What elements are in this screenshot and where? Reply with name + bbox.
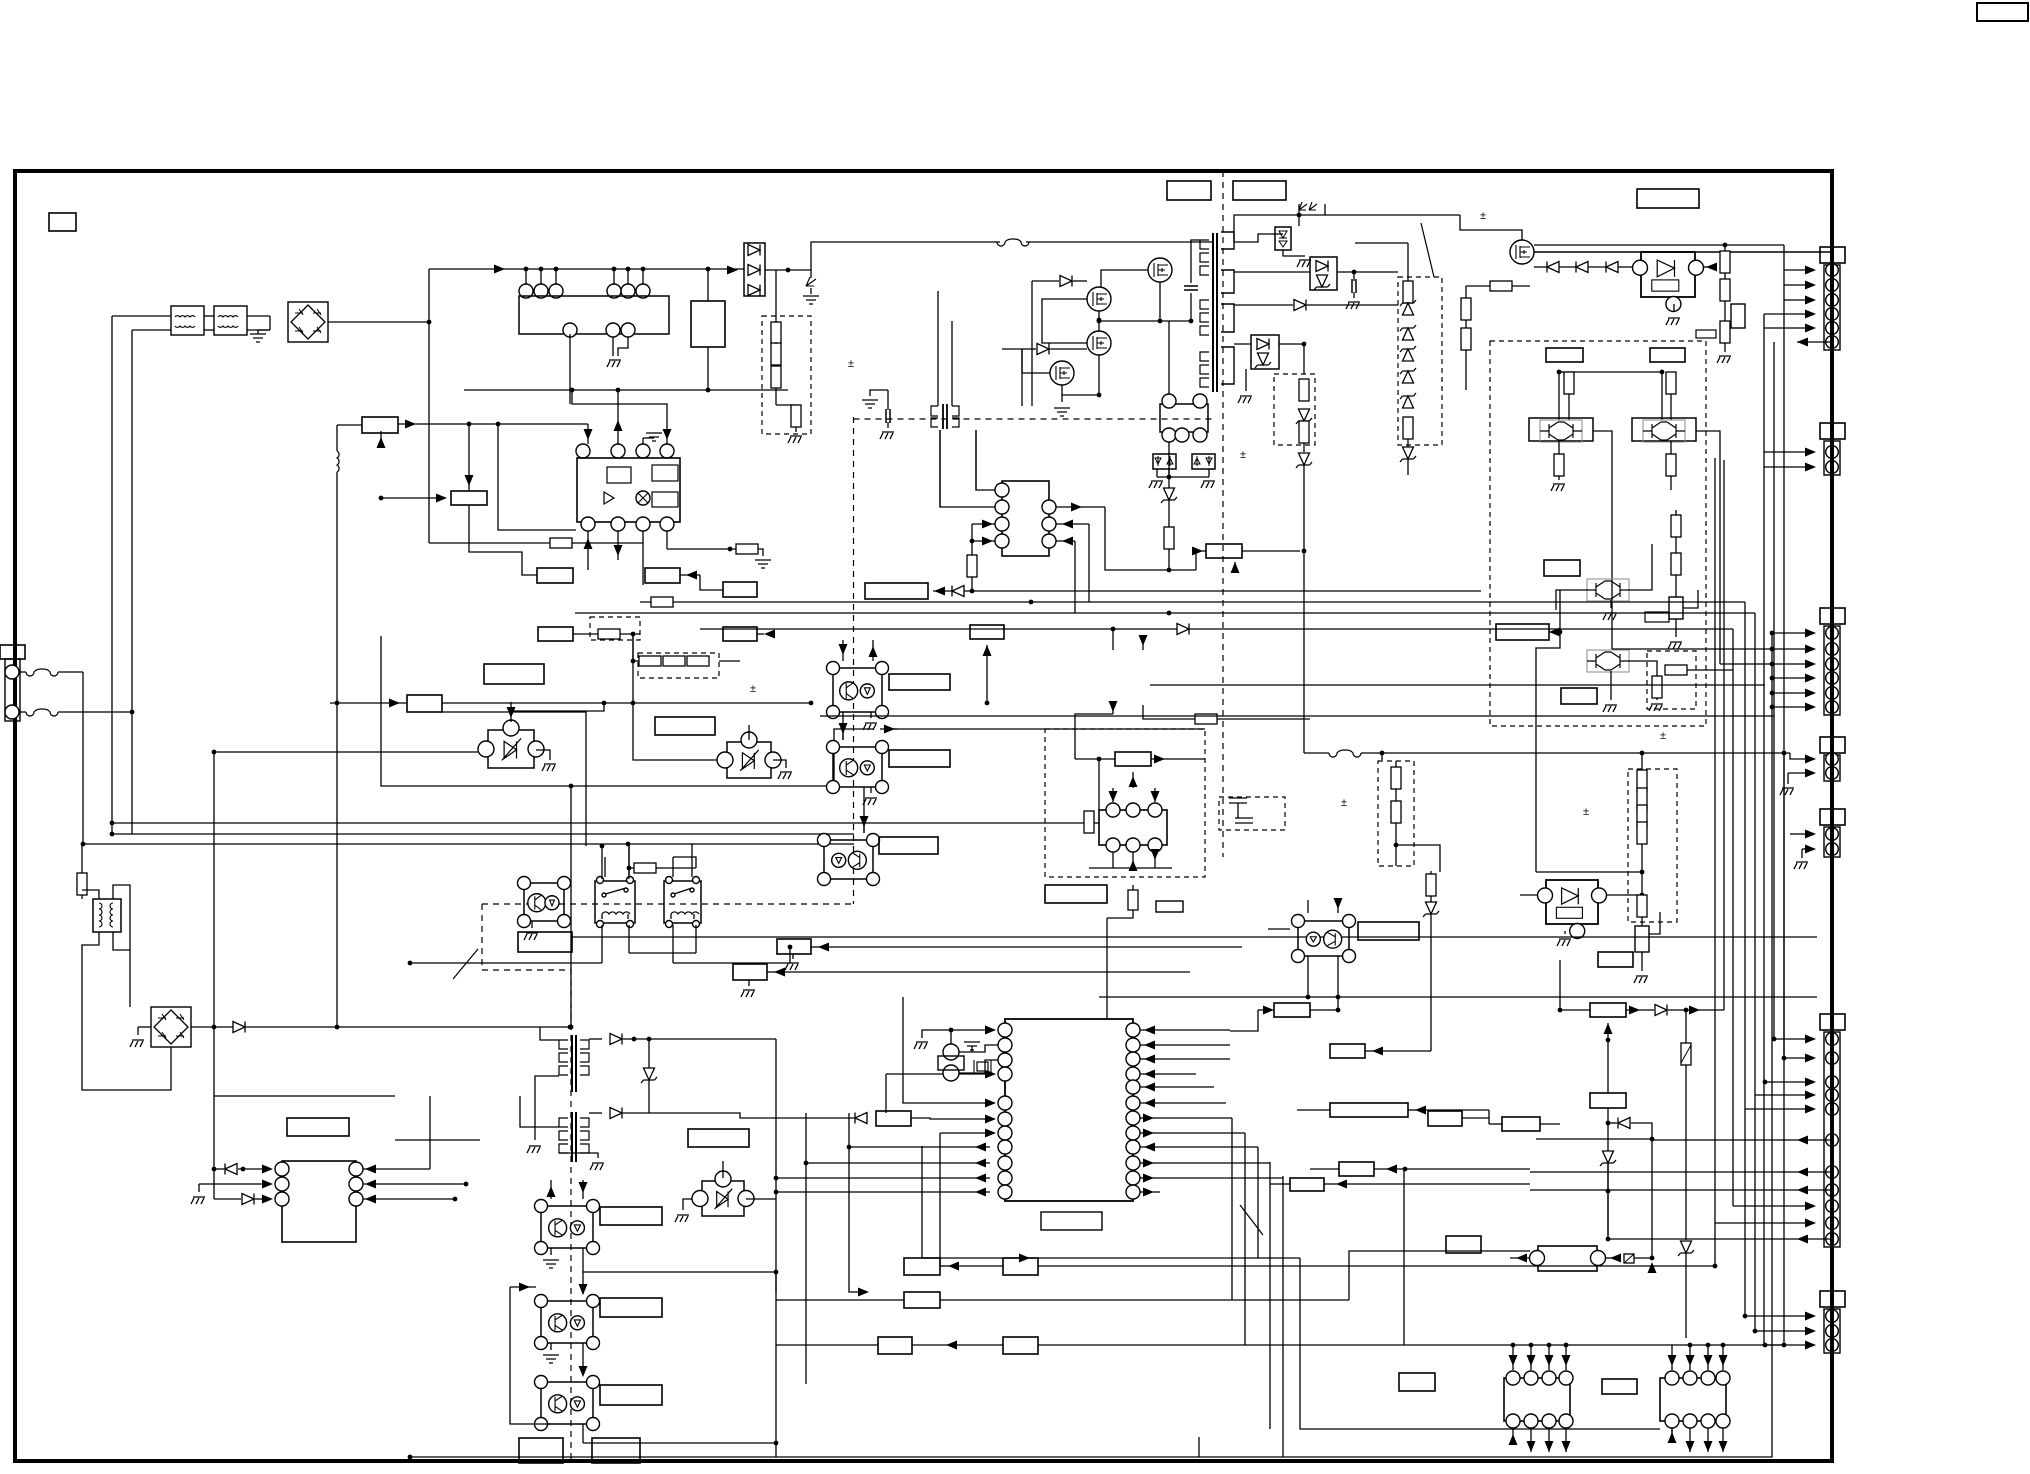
svg-text:±: ± — [1480, 210, 1486, 222]
wire x1686 — [1685, 1010, 1687, 1043]
wire into diode pack — [727, 266, 738, 275]
wire y726 lower dashes — [1535, 726, 1537, 872]
wire pot net — [1132, 885, 1134, 890]
resistor column x1466 — [1465, 286, 1467, 298]
wire relay tops2 — [601, 846, 603, 879]
block B10b label — [655, 717, 715, 735]
wire T4 sec top diode — [589, 1038, 602, 1040]
wire jog into CN4 pin1 — [1790, 753, 1805, 759]
diode D-sec2 — [1294, 300, 1306, 311]
block B12 — [645, 568, 680, 583]
ground BR2 — [137, 1027, 139, 1035]
arrow up into net — [1234, 562, 1236, 570]
IC1 inner block 1 — [607, 467, 631, 483]
wire fuse to transformer — [1026, 234, 1213, 242]
resistor M2 top — [1666, 372, 1676, 394]
wire PC5 top — [1307, 900, 1309, 913]
wire Q5 out — [1534, 251, 1831, 253]
resistor on O6 route — [1195, 714, 1217, 724]
wire B41 left — [1270, 1183, 1290, 1185]
cap to chassis — [887, 390, 889, 410]
wire y1457 bottom — [410, 1456, 1199, 1458]
wire B14 right — [573, 633, 640, 635]
PC8 wires — [579, 1366, 588, 1377]
U33 top pins — [1106, 803, 1120, 817]
PC2 arrow out — [880, 728, 897, 730]
drive winding brackets — [931, 406, 938, 427]
wire q2 gate link — [1032, 280, 1059, 282]
fuse F1 — [19, 671, 26, 673]
photo triac PT2 — [702, 1181, 744, 1216]
arrow up into B16 — [986, 645, 988, 703]
wire AC bus bottom — [83, 843, 854, 845]
U35 top arrows — [1512, 1345, 1514, 1370]
wire IC1 pin4 feed — [572, 390, 667, 444]
ground TL431 — [1673, 304, 1675, 312]
wire y752 vertical drop — [213, 752, 215, 1096]
label box B34 — [1358, 922, 1419, 940]
wire B54-B55 — [912, 1344, 1003, 1346]
wire M2 to CN3 — [1720, 663, 1772, 665]
label box B47 — [1602, 1379, 1637, 1394]
wire x806 column — [805, 1113, 807, 1384]
capacitor C-sec — [1352, 279, 1356, 293]
PC7 wires — [579, 1284, 588, 1295]
U30 left pin arrows — [985, 1026, 996, 1035]
wire degauss gnd — [612, 337, 614, 356]
wire module top bus — [1559, 371, 1662, 373]
MOSFET Q3 — [1087, 331, 1111, 355]
dashed boundary horizontal y419 — [854, 418, 1214, 420]
wire B57 right — [1606, 1257, 1620, 1259]
MOSFET Q1 — [1148, 258, 1172, 282]
crystal X1 — [943, 1044, 959, 1060]
wire B43p net — [1559, 590, 1561, 632]
block B10 label — [484, 664, 544, 684]
wire B8 right — [442, 702, 811, 704]
wire T5 loop — [82, 890, 99, 899]
wire vbus 1772 long — [1199, 633, 1772, 1457]
wire B7 bottom feed — [380, 431, 382, 445]
label box B45 — [1446, 1236, 1481, 1253]
wire bus A y937 left segment — [572, 936, 851, 938]
PT0 gnd — [536, 750, 550, 760]
diode pack D102 — [744, 243, 765, 296]
IC1 top pins — [576, 444, 590, 458]
ground RC — [1717, 356, 1731, 363]
wire q to transformer — [1159, 282, 1161, 321]
wire x633 drop to triac — [633, 634, 727, 760]
wire PT1 gnd — [773, 760, 786, 768]
right border bus thick — [1830, 171, 1834, 1461]
wire T5 to bridge — [129, 960, 131, 1007]
optocoupler PC6 — [541, 1206, 593, 1248]
wire y716 — [820, 715, 1774, 717]
optocoupler PC8 — [541, 1382, 593, 1424]
wire U33 bottom — [1112, 852, 1114, 868]
twin zener pack Z1 — [1153, 454, 1176, 469]
wire staircase 4 — [1269, 1162, 1271, 1429]
wire B43 arrow up — [1607, 1023, 1609, 1040]
gnd crystal — [922, 1030, 936, 1038]
wire aux winding feed — [1168, 321, 1170, 394]
resistor+zener col x1431 — [1426, 874, 1436, 896]
arrow B37 — [1365, 1050, 1378, 1052]
label box B19 — [889, 750, 950, 767]
block B31 — [1115, 752, 1151, 766]
wire B53 — [776, 1299, 904, 1301]
zener B44 — [1600, 1151, 1616, 1166]
wire B9 down — [469, 505, 537, 575]
wire main B+ vertical — [428, 269, 430, 543]
ground C-sec — [1346, 302, 1360, 309]
optocoupler PC2 — [833, 747, 882, 787]
U33 bottom pins — [1106, 838, 1120, 852]
wire D12 — [1641, 753, 1643, 770]
wire B33 out right — [1242, 550, 1300, 552]
wire y1345 bus — [1460, 1344, 1784, 1346]
PC2 gnd — [870, 787, 872, 793]
block B33 — [1206, 544, 1242, 558]
U35 top pins — [1506, 1371, 1520, 1385]
wire vbus 1765 — [1763, 314, 1765, 1345]
ground Z2 — [1208, 469, 1210, 477]
wire diode pack out — [765, 269, 811, 271]
wire M2 out — [1696, 431, 1720, 664]
wire B5 bottom — [707, 347, 709, 390]
wire module feeds — [1558, 372, 1560, 420]
D5 resistor top — [1403, 281, 1413, 303]
IC1 multiplier circle — [636, 491, 650, 505]
block B18b — [865, 583, 928, 599]
dashed box D2 — [590, 617, 640, 640]
D1 resistor 3 — [771, 366, 781, 388]
transformer T5 — [93, 899, 121, 932]
resistor above T5 — [77, 873, 87, 895]
D1 resistor 1 — [771, 322, 781, 344]
wire PC5 net — [1268, 928, 1290, 930]
O6 bottom-left route — [1112, 705, 1114, 714]
wire B37 right — [1378, 1050, 1431, 1052]
pot x1676 — [1669, 597, 1683, 619]
dashed box D9 — [1378, 761, 1414, 866]
wire vertical x633 — [632, 634, 634, 661]
MOSFET Q2 — [1087, 287, 1111, 311]
wire B50 out — [911, 1118, 989, 1119]
resistor D11 v — [1652, 676, 1662, 698]
wire sec to dashed D4 — [1303, 344, 1305, 374]
wire BR2 out — [191, 1026, 570, 1028]
dashed box D5 — [1398, 277, 1442, 445]
wire IC2 right pin1 out — [1056, 506, 1105, 508]
degauss relay circles top row — [519, 284, 533, 298]
wire pot down — [1641, 952, 1643, 971]
wire x849 column — [849, 1113, 863, 1292]
wire TL431 right — [1703, 266, 1716, 268]
transformer T1 core — [1212, 233, 1214, 392]
wire net into U30 top — [1106, 918, 1108, 1020]
wire T1 top left — [1191, 240, 1200, 250]
block B29 resistor — [777, 939, 811, 954]
dashed box D1 — [762, 316, 811, 434]
wire x498 drop — [498, 424, 576, 530]
wire IC1 feed left — [398, 423, 588, 425]
arrow B31 out — [1151, 758, 1205, 760]
resistor B51 — [904, 1258, 940, 1275]
arrow into B18b — [934, 587, 945, 596]
ground D1 — [788, 436, 802, 443]
pot box — [1731, 304, 1745, 328]
wire y1258 long — [1022, 1257, 1300, 1259]
wire IC1 pin stubs top — [587, 424, 589, 444]
wire B40 left — [1310, 1168, 1339, 1170]
wire D11 — [1628, 660, 1647, 662]
svg-text:±: ± — [1341, 797, 1347, 809]
wire x776 column — [775, 1039, 777, 1457]
label box B23 — [600, 1298, 662, 1317]
wire 570 node — [568, 1025, 573, 1030]
wire vbus 1733 — [1732, 629, 1734, 1206]
resistor box B50 — [876, 1111, 911, 1126]
spark gap at B+ node — [810, 270, 812, 278]
wire x586 drop — [442, 712, 586, 846]
dashed separator horizontal mid — [482, 903, 854, 905]
wire mosfet drain bus — [1101, 270, 1148, 287]
wire snubber drop — [775, 270, 777, 322]
zener down chain — [1168, 477, 1170, 570]
wire net y972 — [781, 971, 1190, 973]
wire AC bus3 — [112, 833, 854, 835]
IC1 amp triangle — [604, 492, 614, 504]
resistor in D2 — [598, 629, 620, 639]
U36 bottom wires — [1689, 1428, 1691, 1452]
wire sec top — [1234, 234, 1283, 242]
D5 resistor bottom — [1403, 417, 1413, 439]
wire zener center — [1168, 469, 1170, 477]
U34 wire3 diode — [214, 1198, 241, 1200]
wire DB2 out — [1337, 271, 1398, 273]
T4 windings right — [580, 1040, 589, 1049]
CN4 wires — [1805, 755, 1816, 764]
wire D9 — [1395, 761, 1397, 767]
wire y1139 — [1536, 1138, 1652, 1140]
wire top distribution — [429, 268, 744, 270]
twin zener pack Z2 — [1192, 454, 1215, 469]
wire B51-B52 — [955, 1265, 1003, 1267]
dashed separator step — [482, 904, 571, 1461]
U35 bottom wires — [1530, 1428, 1532, 1452]
optocoupler PC7 — [541, 1301, 593, 1343]
wire D5 to bus — [1407, 459, 1409, 475]
long resistor B38 — [1330, 1103, 1408, 1117]
dashed box D3 — [638, 653, 719, 678]
wire B36 left net — [1230, 1010, 1258, 1031]
IGBT module M2 — [1632, 418, 1696, 441]
wire B58 right — [1634, 1257, 1652, 1259]
wire bus y962 — [395, 1139, 480, 1141]
wire U32 left — [1520, 894, 1538, 896]
optocoupler PC3 — [824, 840, 873, 879]
spark gap symbols — [1299, 202, 1317, 210]
T1 primary windings — [1200, 240, 1209, 249]
dashed box D6 — [1490, 341, 1706, 726]
wire B57 left — [1510, 1257, 1530, 1259]
block B36 — [1274, 1003, 1310, 1017]
slash annotation 2 — [1240, 1205, 1263, 1235]
IC U35 body — [1504, 1378, 1570, 1421]
block B7 — [362, 417, 398, 433]
wire degauss stubs — [525, 269, 527, 284]
arrow B54 — [946, 1341, 957, 1350]
PC1 pin wires top — [842, 640, 844, 661]
wire AC line1 — [82, 672, 84, 844]
IC2 pin arrows left — [982, 520, 993, 529]
D9 resistor 2 — [1391, 801, 1401, 823]
wire D5 vertical — [1407, 243, 1409, 281]
wire T4 primary top — [540, 1027, 559, 1040]
diode B44 — [1618, 1118, 1630, 1129]
D1 bottom resistor — [791, 405, 801, 427]
CN6 arrows — [1805, 1035, 1816, 1044]
wire D4 to bus — [1303, 465, 1305, 753]
IC U36 body — [1660, 1378, 1726, 1421]
relay RY1 — [595, 881, 635, 923]
arrow B41 — [1336, 1180, 1347, 1189]
D9 resistor 1 — [1391, 767, 1401, 789]
U36 top arrows — [1671, 1345, 1673, 1370]
wire B13 net — [700, 575, 723, 590]
bridge rectifier D101 — [288, 302, 328, 342]
block B44 — [1590, 1093, 1626, 1108]
wire D8 — [1237, 803, 1239, 818]
wire filter links — [112, 315, 171, 317]
label pot — [1645, 612, 1669, 622]
block B13 — [723, 582, 757, 597]
arrow into B51 — [948, 1262, 959, 1271]
wire y1443 — [583, 1442, 776, 1444]
wire left into q stage — [1002, 348, 1022, 350]
connector CN4 — [1820, 737, 1845, 753]
svg-text:±: ± — [1660, 730, 1666, 742]
PT0 top wire — [510, 702, 512, 722]
resistor B53 — [904, 1292, 940, 1308]
wire T4 mosfet stage — [520, 1096, 559, 1127]
connector CN6 — [1820, 1014, 1845, 1030]
wire TR1 — [1556, 590, 1588, 610]
label box B25 — [287, 1118, 349, 1136]
box B56 — [1428, 1111, 1462, 1126]
wire riser to fuse top — [811, 242, 1000, 270]
wire vbus 1784 — [1783, 245, 1785, 1058]
slash annotation 1 — [1421, 223, 1434, 277]
U30 left pins — [998, 1023, 1012, 1037]
optocoupler PC1 — [833, 668, 882, 712]
wire bus y1272 — [583, 1271, 776, 1273]
wire D10 down — [1641, 917, 1643, 926]
MOSFET Q5 — [1510, 240, 1534, 264]
wire diode B44 — [1608, 1122, 1617, 1124]
O6 top pin risers — [1112, 629, 1114, 650]
dashed box D4 — [1274, 374, 1315, 445]
PC6 wires — [550, 1180, 552, 1199]
resistor on y602 — [651, 597, 673, 607]
wire B56 right — [1462, 1117, 1489, 1119]
wire x1199 rise — [1198, 1437, 1200, 1457]
ground T4 a — [527, 1146, 541, 1153]
resistor RB — [1720, 279, 1730, 301]
T1 aux winding block — [1160, 404, 1208, 432]
wire tl431 net — [1534, 266, 1547, 268]
connector CN3 — [1820, 608, 1845, 624]
IC2 PWM body — [1002, 481, 1049, 556]
U30 right pin wires — [1140, 1029, 1230, 1031]
wire vbus 1715 — [1714, 458, 1716, 1266]
PC4 gnd — [531, 921, 533, 928]
fuse F3 — [1329, 750, 1361, 757]
D4 zener down — [1296, 453, 1312, 468]
wire IC2 left net — [972, 523, 995, 525]
label box D6-1 — [1546, 348, 1583, 362]
wire x834 riser — [834, 729, 873, 786]
wire x1652 up arrow — [1651, 1139, 1653, 1258]
U36 top pins — [1665, 1371, 1679, 1385]
zener x1686 bottom — [1678, 1241, 1694, 1256]
fuse F2 — [19, 711, 26, 713]
arrow into B43p — [1549, 628, 1560, 637]
resistor D11 h — [1665, 665, 1687, 675]
IC1 inner block 2 — [652, 465, 678, 481]
inner dashed box D8 — [1219, 797, 1285, 830]
wire B12 right — [680, 574, 700, 576]
diode on y591 — [952, 586, 964, 597]
CN3 arrows wires — [1805, 629, 1816, 638]
U34 left pins — [275, 1162, 289, 1176]
ground DP1 — [1297, 260, 1311, 267]
wire B43 rise — [1723, 460, 1725, 1010]
svg-text:±: ± — [1240, 449, 1246, 461]
PC3 pin wire — [863, 818, 865, 833]
wire bus y752 — [214, 751, 484, 753]
label box B2 — [1167, 181, 1211, 200]
dashed box D11 — [1647, 651, 1696, 709]
U34 wire2 — [199, 1183, 268, 1185]
wire B44 net — [1607, 1040, 1609, 1093]
resistor right of D5 — [1490, 281, 1512, 291]
wire y543 from B+ — [429, 542, 643, 544]
wire B5 top — [707, 269, 709, 301]
wire D3 link — [633, 660, 639, 662]
PT2 gnd wire — [683, 1199, 692, 1210]
wire B54 left — [776, 1344, 878, 1346]
wire B40 right — [1392, 1168, 1530, 1170]
wire q network — [1098, 311, 1100, 331]
6pin IC U33 body — [1099, 810, 1167, 845]
dashed separator vertical mid — [853, 417, 855, 904]
capacitor primary — [1184, 286, 1198, 290]
U30 left pin wires — [936, 1029, 989, 1031]
wire right resistor column — [1724, 245, 1726, 352]
wire b8 drop x336 — [336, 703, 338, 1027]
wire relay tops — [604, 857, 606, 877]
diode on bus y629 — [1177, 624, 1189, 635]
wire D4 down — [1303, 443, 1305, 452]
resistor col x1676 b — [1671, 553, 1681, 575]
CN4 ground — [1787, 780, 1789, 784]
U34 right pins — [349, 1162, 363, 1176]
D5 bottom zener — [1400, 447, 1416, 462]
IGBT module M1 — [1529, 418, 1593, 441]
op-amp block B57 — [1538, 1246, 1597, 1271]
